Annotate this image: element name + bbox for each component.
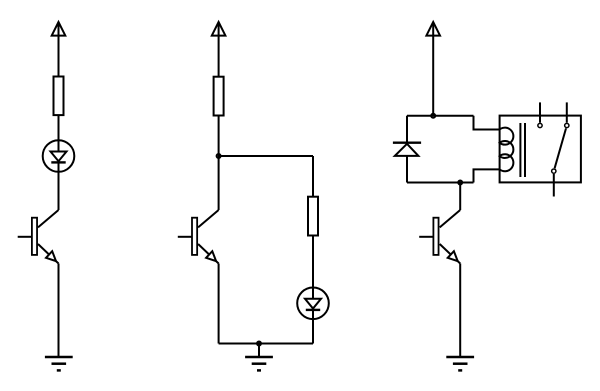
power symbol VCC (middle): [212, 22, 226, 36]
wire LED to transistor collector (left): [58, 162, 60, 210]
wire down to diode (right): [406, 116, 408, 143]
node junction dot (middle top): [217, 154, 221, 158]
wire collector to node (middle): [218, 156, 220, 210]
transistor Q1 base bar (left): [32, 218, 37, 255]
transistor Q1 collector lead (left): [38, 210, 59, 227]
wire resistor to node (middle): [218, 116, 220, 157]
relay K1 switch NO terminal stub (top right): [566, 102, 568, 122]
wire VCC to resistor (left): [58, 23, 60, 76]
resistor R3 (middle right branch): [308, 197, 318, 236]
resistor R1 (left): [54, 77, 64, 116]
ground symbol (middle): [245, 357, 273, 370]
wire resistor R3 to LED (middle): [312, 236, 314, 299]
bottom rail wire (middle): [219, 343, 313, 345]
LED D2 cathode bar (middle): [306, 309, 320, 311]
LED D1 triangle (left): [51, 152, 67, 162]
relay K1 switch pole circle (bottom): [552, 169, 556, 173]
wire rail to ground (middle): [258, 344, 260, 358]
transistor Q3 collector lead (right): [440, 210, 461, 227]
transistor Q3 emitter lead (right): [440, 244, 461, 264]
transistor Q2 emitter lead (middle): [198, 244, 219, 264]
bottom wire diode to relay corner (right): [407, 182, 474, 184]
node junction dot (middle bottom): [257, 341, 261, 345]
wire down to resistor R3 (middle): [312, 156, 314, 196]
transistor Q1 base lead (left): [18, 236, 32, 238]
transistor Q3 base lead (right): [419, 236, 433, 238]
resistor R2 (middle): [214, 77, 224, 116]
wire node to transistor collector (right): [459, 183, 461, 211]
transistor Q3 base bar (right): [433, 218, 438, 255]
wire corner to coil bottom (right): [474, 169, 500, 182]
relay K1 switch blade: [555, 128, 566, 168]
transistor Q2 collector lead (middle): [198, 210, 219, 227]
relay K1 core lines: [519, 123, 521, 177]
relay K1 switch common terminal stub (top left): [539, 102, 541, 122]
diode D3 cathode bar (right): [393, 141, 421, 143]
LED D2 triangle (middle): [305, 299, 321, 309]
top wire node to corners (right): [407, 115, 474, 117]
node junction dot (right bottom): [458, 180, 462, 184]
wire emitter to ground (right): [459, 264, 461, 358]
relay K1 switch NO circle (top right): [565, 123, 569, 127]
transistor Q2 base lead (middle): [178, 236, 192, 238]
diode D3 triangle (right): [395, 144, 419, 156]
wire VCC to node (right): [432, 23, 434, 116]
relay K1 coil arcs: [500, 128, 514, 172]
ground symbol (left): [45, 357, 73, 370]
wire emitter to bottom rail (middle): [218, 264, 220, 344]
LED D1 circle (left): [43, 140, 75, 172]
transistor Q3 emitter arrow (right): [448, 251, 458, 261]
wire diode to bottom wire (right): [406, 156, 408, 183]
wire resistor to LED (left): [58, 116, 60, 152]
wire node to right branch (middle): [219, 155, 313, 157]
LED D1 cathode bar (left): [51, 161, 65, 163]
wire LED to bottom rail (middle): [312, 310, 314, 344]
LED D2 circle (middle): [297, 288, 329, 320]
power symbol VCC (left): [52, 22, 66, 36]
relay K1 switch common circle (top left): [538, 123, 542, 127]
relay K1 box: [500, 116, 581, 183]
transistor Q1 emitter arrow (left): [46, 251, 56, 261]
wire emitter to ground (left): [58, 264, 60, 358]
ground symbol (right): [446, 357, 474, 370]
relay K1 switch pole stub (bottom): [553, 174, 555, 197]
wire VCC to resistor (middle): [218, 23, 220, 76]
power symbol VCC (right): [426, 22, 440, 36]
transistor Q1 emitter lead (left): [38, 244, 59, 264]
transistor Q2 emitter arrow (middle): [206, 251, 216, 261]
node junction dot (right top): [431, 114, 435, 118]
transistor Q2 base bar (middle): [192, 218, 197, 255]
wire corner to coil top (right): [474, 116, 500, 130]
